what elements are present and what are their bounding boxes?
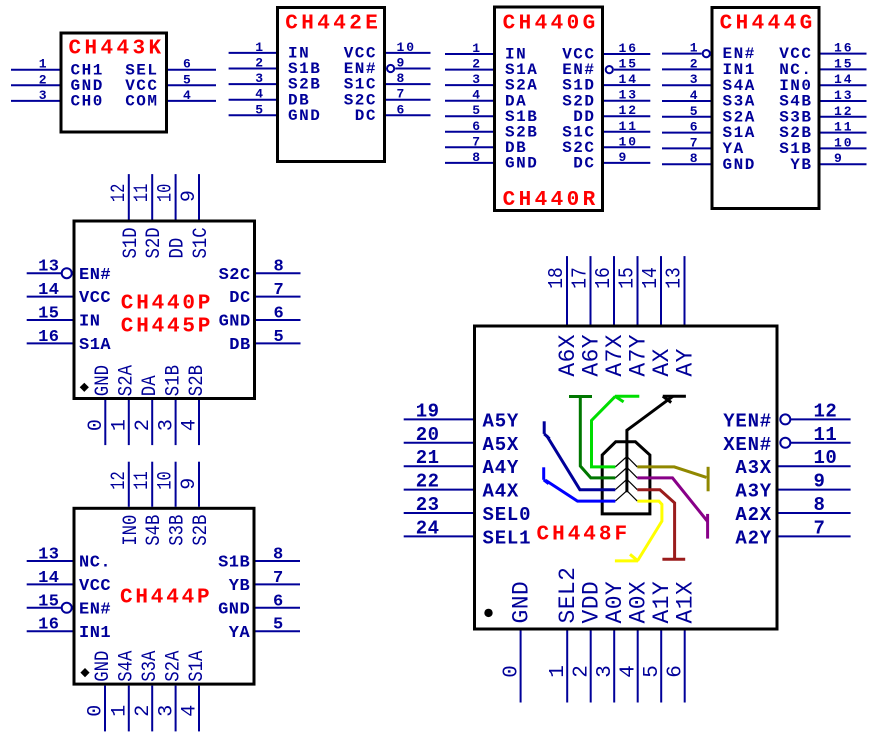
pin 14 AX bbox=[640, 256, 675, 377]
pin 5 A1Y bbox=[641, 581, 675, 703]
svg-text:CH444P: CH444P bbox=[120, 587, 212, 610]
IC CH440G body bbox=[495, 7, 603, 211]
pin 1 CH1 bbox=[11, 57, 104, 80]
pin 6 DC bbox=[355, 102, 431, 125]
svg-text:2: 2 bbox=[472, 57, 482, 72]
svg-text:12: 12 bbox=[108, 184, 131, 202]
svg-text:6: 6 bbox=[183, 57, 193, 72]
pin 6 SEL bbox=[125, 57, 216, 80]
svg-text:S1A: S1A bbox=[186, 651, 209, 682]
svg-text:YEN#: YEN# bbox=[723, 410, 772, 432]
svg-text:EN#: EN# bbox=[79, 600, 111, 619]
svg-text:15: 15 bbox=[38, 592, 59, 611]
pin 16 A7X bbox=[593, 256, 628, 377]
svg-text:2: 2 bbox=[255, 56, 265, 71]
svg-text:S2A: S2A bbox=[116, 365, 139, 396]
svg-text:10: 10 bbox=[155, 184, 178, 202]
svg-text:15: 15 bbox=[616, 267, 639, 289]
svg-text:CH440G: CH440G bbox=[503, 13, 599, 36]
wire dark green bbox=[569, 397, 615, 478]
svg-text:13: 13 bbox=[619, 88, 639, 103]
svg-text:GND: GND bbox=[92, 651, 115, 682]
svg-text:14: 14 bbox=[38, 281, 59, 300]
svg-text:S4A: S4A bbox=[116, 651, 139, 682]
pin 3 A0Y bbox=[594, 581, 628, 703]
svg-text:1: 1 bbox=[690, 41, 700, 56]
svg-text:3: 3 bbox=[690, 72, 700, 87]
pin 3 S2A bbox=[445, 72, 538, 95]
pin 7 DB bbox=[445, 134, 527, 157]
svg-text:S1C: S1C bbox=[190, 227, 213, 258]
pin 8 GND bbox=[662, 151, 756, 174]
pin 3 S4A bbox=[662, 72, 756, 95]
svg-text:3: 3 bbox=[594, 665, 617, 678]
wire yellow bbox=[615, 501, 662, 561]
pin 13 NC. bbox=[27, 546, 111, 573]
svg-text:7: 7 bbox=[472, 134, 482, 149]
svg-text:GND: GND bbox=[92, 365, 115, 396]
svg-text:9: 9 bbox=[178, 478, 201, 490]
svg-text:A7Y: A7Y bbox=[626, 334, 652, 377]
pin 8 S1C bbox=[344, 71, 431, 94]
svg-text:A3X: A3X bbox=[735, 457, 772, 479]
svg-text:4: 4 bbox=[472, 88, 482, 103]
pin 14 VCC bbox=[27, 569, 111, 596]
svg-text:12: 12 bbox=[834, 104, 854, 119]
svg-text:A3Y: A3Y bbox=[735, 481, 772, 503]
pin 11 S4B bbox=[131, 462, 166, 546]
pin 4 COM bbox=[125, 88, 216, 111]
pin 5 GND bbox=[229, 102, 322, 125]
pin 7 A2Y bbox=[735, 517, 850, 549]
svg-text:16: 16 bbox=[593, 267, 616, 289]
pin 3 S2B bbox=[229, 71, 322, 94]
svg-text:CH443K: CH443K bbox=[69, 37, 165, 60]
pin 19 A5Y bbox=[404, 400, 519, 432]
svg-text:10: 10 bbox=[397, 40, 417, 55]
svg-text:9: 9 bbox=[619, 150, 629, 165]
svg-text:S2C: S2C bbox=[219, 266, 251, 285]
svg-text:2: 2 bbox=[570, 665, 593, 678]
pin 3 S1B bbox=[155, 365, 185, 445]
svg-text:7: 7 bbox=[814, 517, 826, 539]
pin 4 S1A bbox=[179, 651, 209, 732]
svg-text:5: 5 bbox=[183, 72, 193, 87]
svg-text:S1A: S1A bbox=[79, 336, 111, 355]
svg-text:5: 5 bbox=[641, 665, 664, 678]
svg-text:GND: GND bbox=[509, 581, 535, 624]
svg-text:COM: COM bbox=[125, 93, 158, 111]
svg-text:5: 5 bbox=[472, 103, 482, 118]
pin 15 A7Y bbox=[616, 256, 651, 377]
pin 12 IN0 bbox=[108, 462, 143, 546]
svg-text:10: 10 bbox=[834, 135, 854, 150]
pin 9 EN# bbox=[344, 56, 431, 79]
svg-text:6: 6 bbox=[472, 119, 482, 134]
svg-text:S1B: S1B bbox=[218, 554, 250, 573]
svg-text:2: 2 bbox=[39, 72, 49, 87]
svg-text:S3B: S3B bbox=[167, 515, 190, 546]
pin 1 SEL2 bbox=[547, 567, 581, 703]
pin 16 VCC bbox=[779, 41, 866, 64]
svg-text:5: 5 bbox=[690, 104, 700, 119]
svg-text:7: 7 bbox=[273, 569, 284, 588]
svg-text:10: 10 bbox=[155, 471, 178, 489]
svg-text:DC: DC bbox=[573, 155, 595, 173]
pin 6 S2B bbox=[445, 119, 538, 142]
svg-text:1: 1 bbox=[109, 419, 132, 431]
svg-text:YA: YA bbox=[229, 624, 251, 643]
wire navy bbox=[544, 421, 615, 489]
svg-text:13: 13 bbox=[663, 267, 686, 289]
svg-text:YB: YB bbox=[229, 577, 250, 596]
pin 11 S1C bbox=[562, 119, 650, 142]
svg-text:9: 9 bbox=[397, 56, 407, 71]
svg-text:13: 13 bbox=[38, 258, 59, 277]
pin 7 YA bbox=[662, 135, 745, 158]
svg-text:6: 6 bbox=[273, 592, 284, 611]
wire chevron 1 bbox=[615, 457, 637, 467]
svg-text:XEN#: XEN# bbox=[723, 434, 772, 456]
pin 10 S2C bbox=[562, 134, 650, 157]
pin 16 S1A bbox=[27, 328, 112, 355]
pin 9 YB bbox=[790, 151, 866, 174]
pin 15 EN# bbox=[562, 57, 650, 80]
pin 8 S2C bbox=[219, 258, 301, 285]
svg-text:4: 4 bbox=[183, 88, 193, 103]
pin 13 AY bbox=[663, 256, 698, 377]
svg-text:A4X: A4X bbox=[483, 481, 520, 503]
svg-text:AX: AX bbox=[649, 348, 675, 376]
pin 5 S1B bbox=[445, 103, 538, 126]
svg-text:GND: GND bbox=[505, 155, 538, 173]
pin 1 marker CH440P/CH445P bbox=[80, 383, 89, 392]
svg-text:S4B: S4B bbox=[143, 515, 166, 546]
svg-text:16: 16 bbox=[38, 328, 59, 347]
pin 11 XEN# bbox=[723, 424, 850, 456]
svg-text:EN#: EN# bbox=[79, 266, 111, 285]
IC CH444P body bbox=[74, 508, 254, 684]
svg-text:16: 16 bbox=[38, 616, 59, 635]
svg-text:A6Y: A6Y bbox=[579, 334, 605, 377]
wire purple bbox=[637, 478, 707, 539]
pin 13 S2D bbox=[562, 88, 650, 111]
pin 1 marker CH448F bbox=[484, 609, 492, 617]
svg-text:A6X: A6X bbox=[555, 334, 581, 377]
svg-text:GND: GND bbox=[218, 600, 250, 619]
pin 1 marker CH444P bbox=[80, 668, 89, 677]
svg-text:3: 3 bbox=[155, 705, 178, 717]
IC CH440P/CH445P body bbox=[74, 221, 255, 399]
svg-text:3: 3 bbox=[255, 71, 265, 86]
svg-text:8: 8 bbox=[814, 494, 826, 516]
svg-text:1: 1 bbox=[109, 705, 132, 717]
svg-text:8: 8 bbox=[472, 150, 482, 165]
svg-text:9: 9 bbox=[834, 151, 844, 166]
svg-text:11: 11 bbox=[619, 119, 639, 134]
svg-text:IN0: IN0 bbox=[120, 515, 143, 546]
wire blue bbox=[544, 467, 616, 501]
svg-text:GND: GND bbox=[219, 313, 251, 332]
svg-text:11: 11 bbox=[814, 424, 838, 446]
svg-text:14: 14 bbox=[640, 267, 663, 289]
svg-text:24: 24 bbox=[416, 517, 440, 539]
svg-text:11: 11 bbox=[131, 184, 154, 202]
svg-text:7: 7 bbox=[397, 87, 407, 102]
svg-text:8: 8 bbox=[397, 71, 407, 86]
pin 2 S1B bbox=[229, 56, 322, 79]
pin 0 GND bbox=[85, 365, 115, 445]
pin 9 S1C bbox=[178, 174, 213, 258]
svg-text:CH444G: CH444G bbox=[720, 13, 816, 36]
svg-text:S2B: S2B bbox=[186, 365, 209, 396]
svg-text:12: 12 bbox=[619, 103, 639, 118]
svg-text:A5X: A5X bbox=[483, 434, 520, 456]
pin 5 YA bbox=[229, 616, 300, 643]
svg-text:5: 5 bbox=[273, 616, 284, 635]
svg-text:S2B: S2B bbox=[190, 515, 213, 546]
svg-text:4: 4 bbox=[179, 705, 202, 717]
svg-text:CH448F: CH448F bbox=[537, 523, 631, 546]
svg-text:20: 20 bbox=[416, 424, 440, 446]
svg-text:16: 16 bbox=[834, 41, 854, 56]
pin 8 S1B bbox=[218, 546, 300, 573]
pin 18 A6X bbox=[546, 256, 581, 377]
pin 10 S3B bbox=[155, 462, 190, 546]
svg-text:6: 6 bbox=[274, 305, 285, 324]
pin 10 VCC bbox=[344, 40, 431, 63]
pin 20 A5X bbox=[404, 424, 519, 456]
svg-text:CH442E: CH442E bbox=[285, 13, 381, 36]
svg-text:A0X: A0X bbox=[626, 581, 652, 624]
svg-text:2: 2 bbox=[132, 705, 155, 717]
svg-text:2: 2 bbox=[132, 419, 155, 431]
pin 23 SEL0 bbox=[404, 494, 532, 526]
wire bright green bbox=[592, 396, 640, 467]
svg-text:IN: IN bbox=[79, 313, 100, 332]
pin 10 S1B bbox=[779, 135, 866, 158]
svg-text:21: 21 bbox=[416, 447, 440, 469]
svg-text:A2X: A2X bbox=[735, 504, 772, 526]
svg-text:DC: DC bbox=[355, 107, 377, 125]
pin 8 GND bbox=[445, 150, 538, 173]
pin 0 GND bbox=[500, 581, 534, 703]
svg-text:14: 14 bbox=[619, 72, 639, 87]
pin 9 A3Y bbox=[735, 471, 850, 503]
pin 4 S3A bbox=[662, 88, 756, 111]
svg-text:DA: DA bbox=[139, 375, 162, 396]
svg-text:9: 9 bbox=[814, 471, 826, 493]
svg-text:8: 8 bbox=[273, 546, 284, 565]
svg-text:S1D: S1D bbox=[120, 227, 143, 258]
pin 8 A2X bbox=[735, 494, 850, 526]
svg-text:DB: DB bbox=[229, 336, 250, 355]
pin 5 VCC bbox=[125, 72, 216, 95]
svg-text:S2A: S2A bbox=[162, 651, 185, 682]
pin 1 S2A bbox=[109, 365, 139, 445]
pin 2 DA bbox=[132, 375, 162, 445]
wire chevron 2 bbox=[615, 468, 637, 478]
pin 11 S2D bbox=[131, 174, 166, 258]
pin 21 A4Y bbox=[404, 447, 519, 479]
pin 9 S2B bbox=[178, 462, 213, 546]
svg-text:7: 7 bbox=[690, 135, 700, 150]
wire chevron 4 bbox=[615, 491, 637, 501]
svg-text:GND: GND bbox=[288, 107, 321, 125]
svg-text:8: 8 bbox=[690, 151, 700, 166]
svg-text:0: 0 bbox=[85, 419, 108, 431]
svg-text:A7X: A7X bbox=[602, 334, 628, 377]
svg-text:CH440R: CH440R bbox=[503, 189, 599, 212]
svg-text:SEL0: SEL0 bbox=[483, 504, 532, 526]
svg-text:A0Y: A0Y bbox=[602, 581, 628, 624]
svg-text:15: 15 bbox=[38, 305, 59, 324]
pin 2 S1A bbox=[445, 57, 538, 80]
pin 17 A6Y bbox=[569, 256, 604, 377]
svg-text:14: 14 bbox=[38, 569, 59, 588]
svg-text:0: 0 bbox=[85, 705, 108, 717]
svg-text:15: 15 bbox=[619, 57, 639, 72]
pin 2 GND bbox=[11, 72, 104, 95]
pin 10 A3X bbox=[735, 447, 850, 479]
pin 22 A4X bbox=[404, 471, 519, 503]
pin 6 S1A bbox=[662, 120, 756, 143]
svg-text:9: 9 bbox=[178, 190, 201, 202]
svg-text:GND: GND bbox=[723, 156, 756, 174]
svg-text:13: 13 bbox=[38, 546, 59, 565]
pin 7 YB bbox=[229, 569, 300, 596]
pin 1 S4A bbox=[109, 651, 139, 732]
svg-text:22: 22 bbox=[416, 471, 440, 493]
svg-text:15: 15 bbox=[834, 56, 854, 71]
pin 11 S2B bbox=[779, 120, 866, 143]
wire black X bbox=[627, 396, 686, 492]
pin 14 IN0 bbox=[779, 72, 866, 95]
pin 13 EN# bbox=[27, 258, 111, 285]
svg-text:1: 1 bbox=[472, 41, 482, 56]
svg-text:3: 3 bbox=[472, 72, 482, 87]
svg-text:3: 3 bbox=[155, 419, 178, 431]
svg-text:S3A: S3A bbox=[139, 651, 162, 682]
svg-text:10: 10 bbox=[619, 134, 639, 149]
svg-text:VCC: VCC bbox=[79, 289, 111, 308]
svg-text:DC: DC bbox=[229, 289, 250, 308]
pin 4 DB bbox=[229, 87, 311, 110]
svg-text:3: 3 bbox=[39, 88, 49, 103]
svg-text:VDD: VDD bbox=[579, 581, 605, 624]
svg-text:A1X: A1X bbox=[673, 581, 699, 624]
svg-text:AY: AY bbox=[673, 348, 699, 376]
pin 7 DC bbox=[229, 281, 300, 308]
pin 5 DB bbox=[229, 328, 300, 355]
pin 1 IN bbox=[229, 40, 311, 63]
svg-text:8: 8 bbox=[274, 258, 285, 277]
svg-text:4: 4 bbox=[690, 88, 700, 103]
pin 5 S2A bbox=[662, 104, 756, 127]
wire chevron 3 bbox=[615, 479, 637, 489]
pin 2 IN1 bbox=[662, 56, 756, 79]
svg-text:4: 4 bbox=[179, 419, 202, 431]
svg-text:NC.: NC. bbox=[79, 554, 111, 573]
svg-text:17: 17 bbox=[569, 267, 592, 289]
pin 12 S1D bbox=[108, 174, 143, 258]
pin 12 S3B bbox=[779, 104, 866, 127]
pin 2 S3A bbox=[132, 651, 162, 732]
svg-text:4: 4 bbox=[255, 87, 265, 102]
pin 15 IN bbox=[27, 305, 101, 332]
pin 12 DD bbox=[573, 103, 650, 126]
svg-text:12: 12 bbox=[108, 471, 131, 489]
svg-text:IN1: IN1 bbox=[79, 624, 111, 643]
pin 4 DA bbox=[445, 88, 527, 111]
svg-text:S2D: S2D bbox=[143, 227, 166, 258]
pin 16 IN1 bbox=[27, 616, 111, 643]
wire olive bbox=[637, 467, 708, 492]
svg-text:A4Y: A4Y bbox=[483, 457, 520, 479]
pin 14 S1D bbox=[562, 72, 650, 95]
pin 1 EN# bbox=[662, 41, 756, 64]
svg-text:1: 1 bbox=[39, 57, 49, 72]
svg-text:12: 12 bbox=[814, 400, 838, 422]
svg-text:13: 13 bbox=[834, 88, 854, 103]
svg-text:CH0: CH0 bbox=[71, 93, 104, 111]
IC CH444G body bbox=[712, 8, 819, 209]
IC CH443K body bbox=[61, 33, 167, 132]
pin 9 DC bbox=[573, 150, 650, 173]
pin 6 GND bbox=[218, 592, 300, 619]
svg-text:A1Y: A1Y bbox=[649, 581, 675, 624]
svg-text:0: 0 bbox=[500, 665, 523, 678]
svg-text:16: 16 bbox=[619, 41, 639, 56]
svg-text:19: 19 bbox=[416, 400, 440, 422]
svg-text:CH445P: CH445P bbox=[121, 316, 213, 339]
svg-text:SEL1: SEL1 bbox=[483, 527, 532, 549]
pin 0 GND bbox=[85, 651, 115, 732]
svg-text:18: 18 bbox=[546, 267, 569, 289]
pin 3 CH0 bbox=[11, 88, 104, 111]
pin 2 VDD bbox=[570, 581, 604, 703]
pin 7 S2C bbox=[344, 87, 431, 110]
pin 4 S2B bbox=[179, 365, 209, 445]
IC CH448F body bbox=[475, 326, 778, 629]
svg-text:6: 6 bbox=[664, 665, 687, 678]
svg-text:14: 14 bbox=[834, 72, 854, 87]
svg-text:23: 23 bbox=[416, 494, 440, 516]
svg-text:5: 5 bbox=[255, 102, 265, 117]
node switch bundle bbox=[602, 442, 650, 514]
pin 4 A0X bbox=[617, 581, 651, 703]
svg-text:A5Y: A5Y bbox=[483, 410, 520, 432]
svg-text:10: 10 bbox=[814, 447, 838, 469]
svg-text:1: 1 bbox=[547, 665, 570, 678]
svg-text:11: 11 bbox=[131, 471, 154, 489]
svg-text:5: 5 bbox=[274, 328, 285, 347]
svg-text:2: 2 bbox=[690, 56, 700, 71]
pin 6 GND bbox=[219, 305, 301, 332]
svg-text:S1B: S1B bbox=[162, 365, 185, 396]
svg-text:VCC: VCC bbox=[79, 577, 111, 596]
svg-text:CH440P: CH440P bbox=[121, 292, 213, 315]
pin 16 VCC bbox=[562, 41, 650, 64]
pin 1 IN bbox=[445, 41, 527, 64]
pin 15 NC. bbox=[779, 56, 866, 79]
pin 10 DD bbox=[155, 174, 190, 258]
pin 13 S4B bbox=[779, 88, 866, 111]
IC CH442E body bbox=[278, 8, 385, 162]
svg-text:YB: YB bbox=[790, 156, 812, 174]
svg-text:6: 6 bbox=[690, 120, 700, 135]
pin 12 YEN# bbox=[723, 400, 850, 432]
